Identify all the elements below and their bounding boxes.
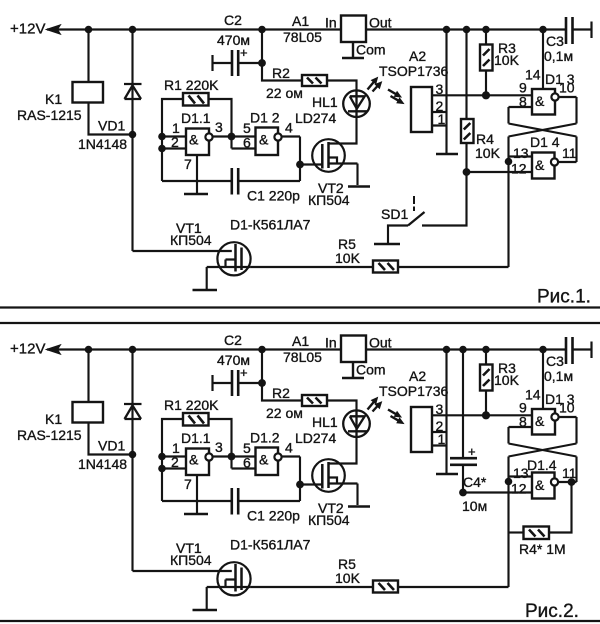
switch SD1 actuator dashes: [413, 196, 415, 211]
figure 1 schematic: [10, 12, 592, 290]
capacitor C4: [450, 458, 477, 465]
wire C4 to pin12: [462, 465, 464, 493]
svg-text:D1.2: D1.2: [250, 430, 280, 446]
svg-text:Рис.2.: Рис.2.: [525, 601, 579, 622]
wire R4* right lead to D1.4 out: [549, 482, 572, 533]
resistor R4: [461, 119, 474, 143]
svg-text:D1 4: D1 4: [530, 134, 560, 150]
switch SD1 lever: [408, 212, 425, 226]
svg-text:D1.4: D1.4: [527, 457, 557, 473]
wire rail to C4: [462, 350, 464, 459]
svg-text:D1 2: D1 2: [250, 110, 280, 126]
border figure 2 bottom: [0, 620, 600, 622]
resistor R4*: [524, 527, 550, 540]
node R4*-D1.4out: [568, 478, 576, 486]
svg-text:+: +: [468, 444, 476, 459]
wire rail to R4: [465, 30, 467, 120]
svg-text:Рис.1.: Рис.1.: [537, 287, 591, 308]
D1.4 pin12 wire: [467, 171, 533, 173]
node rail-C4: [459, 346, 467, 354]
wire SD1 right contact: [422, 172, 467, 226]
wire R4 to SD1 node: [465, 143, 467, 172]
svg-text:C4*: C4*: [463, 474, 487, 490]
node rail-R4: [463, 26, 471, 34]
svg-text:SD1: SD1: [381, 206, 408, 222]
svg-text:R4* 1M: R4* 1M: [519, 541, 566, 557]
node C4-pin12: [459, 489, 467, 497]
wire SD1 left contact: [388, 226, 408, 244]
D1.4 pin12 wire fig2: [463, 491, 532, 493]
svg-text:10м: 10м: [462, 498, 487, 514]
wire R4* left lead: [509, 531, 524, 533]
figure 2 schematic: [10, 332, 592, 610]
border figure 2 top: [0, 322, 600, 324]
border figure 1 bottom: [0, 306, 600, 308]
svg-text:10K: 10K: [475, 145, 501, 161]
node R4-SD1: [463, 168, 471, 176]
ground SD1: [374, 243, 400, 246]
